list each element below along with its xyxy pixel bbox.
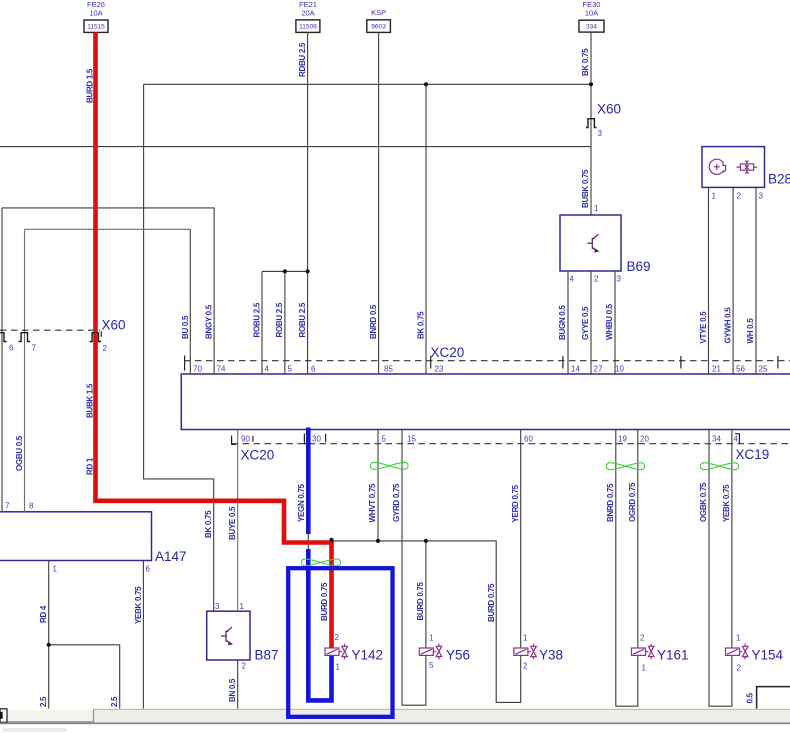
svg-text:BNGY 0.5: BNGY 0.5 bbox=[205, 304, 214, 339]
svg-text:15: 15 bbox=[407, 434, 416, 443]
svg-text:1: 1 bbox=[429, 634, 434, 643]
svg-text:2: 2 bbox=[242, 662, 247, 671]
svg-text:A147: A147 bbox=[155, 549, 187, 564]
svg-text:1: 1 bbox=[736, 634, 741, 643]
svg-text:BNRD 0.75: BNRD 0.75 bbox=[606, 483, 615, 522]
svg-text:25: 25 bbox=[759, 365, 768, 374]
svg-text:30: 30 bbox=[312, 434, 321, 443]
svg-text:60: 60 bbox=[524, 434, 533, 443]
svg-text:YEBK 0.75: YEBK 0.75 bbox=[722, 484, 731, 522]
svg-text:WHVT 0.75: WHVT 0.75 bbox=[368, 483, 377, 522]
svg-text:3: 3 bbox=[759, 192, 764, 201]
svg-text:3: 3 bbox=[215, 602, 220, 611]
svg-text:56: 56 bbox=[736, 365, 745, 374]
svg-text:RD 1: RD 1 bbox=[86, 457, 95, 475]
svg-text:4: 4 bbox=[570, 275, 575, 284]
svg-text:ROBU 2.5: ROBU 2.5 bbox=[298, 302, 307, 337]
svg-text:BURD 1.5: BURD 1.5 bbox=[86, 68, 95, 103]
svg-text:RD 4: RD 4 bbox=[39, 605, 48, 623]
svg-text:BURD 0.75: BURD 0.75 bbox=[487, 583, 496, 622]
svg-text:BN 0.5: BN 0.5 bbox=[228, 678, 237, 702]
svg-text:9603: 9603 bbox=[371, 24, 386, 31]
svg-text:BK 0.75: BK 0.75 bbox=[416, 311, 425, 339]
svg-text:1: 1 bbox=[336, 663, 341, 672]
svg-text:WH 0.5: WH 0.5 bbox=[746, 318, 755, 344]
svg-text:85: 85 bbox=[384, 365, 393, 374]
svg-text:YERD 0.75: YERD 0.75 bbox=[511, 484, 520, 522]
svg-text:2.5: 2.5 bbox=[39, 696, 48, 707]
svg-text:Y161: Y161 bbox=[657, 648, 689, 663]
svg-text:BUBK 0.75: BUBK 0.75 bbox=[581, 169, 590, 208]
svg-text:1: 1 bbox=[53, 565, 58, 574]
svg-text:10A: 10A bbox=[585, 9, 598, 18]
svg-text:7: 7 bbox=[5, 502, 10, 511]
svg-text:0.5: 0.5 bbox=[746, 692, 755, 703]
svg-text:5: 5 bbox=[382, 434, 387, 443]
svg-text:5: 5 bbox=[429, 661, 434, 670]
svg-text:2: 2 bbox=[737, 192, 742, 201]
svg-text:2: 2 bbox=[103, 344, 108, 353]
svg-text:2: 2 bbox=[594, 275, 599, 284]
svg-text:BUYE 0.5: BUYE 0.5 bbox=[228, 506, 237, 540]
svg-text:21: 21 bbox=[712, 365, 721, 374]
svg-text:VTYE 0.5: VTYE 0.5 bbox=[699, 311, 708, 344]
svg-text:2: 2 bbox=[335, 633, 340, 642]
svg-text:34: 34 bbox=[712, 434, 721, 443]
svg-text:WHBU 0.5: WHBU 0.5 bbox=[605, 303, 614, 340]
svg-text:2: 2 bbox=[737, 664, 742, 673]
svg-text:11515: 11515 bbox=[87, 24, 105, 31]
svg-text:BURD 0.75: BURD 0.75 bbox=[416, 581, 425, 620]
svg-text:20A: 20A bbox=[301, 9, 314, 18]
svg-text:1: 1 bbox=[523, 634, 528, 643]
svg-text:Y38: Y38 bbox=[539, 648, 563, 663]
svg-text:GYWH 0.5: GYWH 0.5 bbox=[723, 307, 732, 344]
svg-text:11509: 11509 bbox=[299, 24, 317, 31]
svg-text:OGBU 0.5: OGBU 0.5 bbox=[15, 435, 24, 471]
svg-text:3: 3 bbox=[617, 275, 622, 284]
svg-text:BNRD 0.5: BNRD 0.5 bbox=[369, 304, 378, 339]
svg-text:XC20: XC20 bbox=[431, 345, 465, 360]
svg-text:1: 1 bbox=[240, 602, 245, 611]
svg-text:6: 6 bbox=[9, 344, 14, 353]
svg-text:8: 8 bbox=[29, 502, 34, 511]
svg-text:KSP: KSP bbox=[371, 8, 386, 17]
svg-text:BK 0.75: BK 0.75 bbox=[581, 48, 590, 76]
svg-text:1: 1 bbox=[594, 204, 599, 213]
svg-text:6: 6 bbox=[311, 365, 316, 374]
svg-text:XC20: XC20 bbox=[241, 448, 275, 463]
svg-text:4: 4 bbox=[265, 365, 270, 374]
svg-text:X60: X60 bbox=[597, 102, 621, 117]
svg-text:XC19: XC19 bbox=[736, 447, 770, 462]
svg-text:334: 334 bbox=[586, 24, 597, 31]
svg-text:7: 7 bbox=[32, 344, 37, 353]
svg-text:10A: 10A bbox=[89, 9, 102, 18]
svg-text:YEBK 0.75: YEBK 0.75 bbox=[134, 586, 143, 624]
svg-text:B87: B87 bbox=[255, 648, 279, 663]
svg-text:1: 1 bbox=[712, 192, 717, 201]
svg-text:2.5: 2.5 bbox=[110, 696, 119, 707]
svg-text:BUBK 1.5: BUBK 1.5 bbox=[86, 383, 95, 418]
svg-text:OGRD 0.75: OGRD 0.75 bbox=[628, 482, 637, 522]
svg-text:X60: X60 bbox=[102, 318, 126, 333]
svg-text:GYYE 0.5: GYYE 0.5 bbox=[581, 306, 590, 340]
svg-text:GYRD 0.75: GYRD 0.75 bbox=[392, 483, 401, 522]
svg-text:Y142: Y142 bbox=[352, 648, 384, 663]
svg-text:20: 20 bbox=[640, 434, 649, 443]
svg-text:B28: B28 bbox=[768, 172, 790, 187]
svg-text:10: 10 bbox=[615, 365, 624, 374]
svg-text:70: 70 bbox=[193, 365, 202, 374]
svg-text:14: 14 bbox=[571, 365, 580, 374]
svg-text:ROBU 2.5: ROBU 2.5 bbox=[252, 302, 261, 337]
svg-text:90: 90 bbox=[241, 434, 250, 443]
svg-text:RDBU 2.5: RDBU 2.5 bbox=[298, 42, 307, 77]
svg-text:OGBK 0.75: OGBK 0.75 bbox=[699, 482, 708, 522]
svg-text:Y56: Y56 bbox=[446, 648, 470, 663]
svg-text:23: 23 bbox=[435, 365, 444, 374]
svg-text:27: 27 bbox=[594, 365, 603, 374]
svg-text:3: 3 bbox=[598, 129, 603, 138]
svg-text:19: 19 bbox=[618, 434, 627, 443]
svg-text:ROBU 2.5: ROBU 2.5 bbox=[275, 302, 284, 337]
svg-text:74: 74 bbox=[217, 365, 226, 374]
svg-text:1: 1 bbox=[642, 664, 647, 673]
svg-text:YEGN 0.75: YEGN 0.75 bbox=[297, 483, 306, 522]
svg-text:6: 6 bbox=[146, 565, 151, 574]
svg-text:B69: B69 bbox=[627, 259, 651, 274]
svg-text:5: 5 bbox=[288, 365, 293, 374]
svg-text:BK 0.75: BK 0.75 bbox=[204, 510, 213, 538]
svg-text:2: 2 bbox=[640, 634, 645, 643]
svg-text:4: 4 bbox=[734, 434, 739, 443]
svg-text:2: 2 bbox=[523, 662, 528, 671]
svg-text:BUGN 0.5: BUGN 0.5 bbox=[558, 305, 567, 340]
svg-text:Y154: Y154 bbox=[752, 648, 784, 663]
svg-text:BURD 0.75: BURD 0.75 bbox=[320, 582, 329, 621]
svg-text:BU 0.5: BU 0.5 bbox=[181, 315, 190, 339]
